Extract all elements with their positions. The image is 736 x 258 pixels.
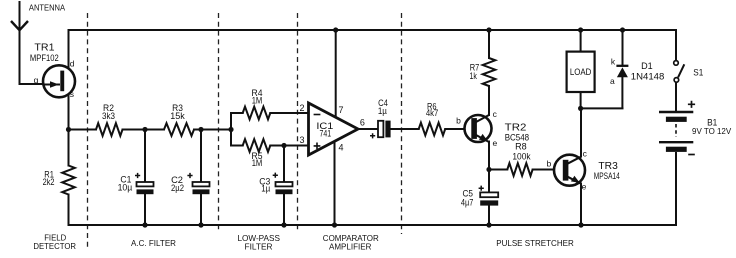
svg-text:e: e <box>582 182 587 192</box>
svg-text:100k: 100k <box>512 151 531 161</box>
svg-text:a: a <box>610 76 615 86</box>
svg-text:c: c <box>583 148 588 158</box>
svg-text:1µ: 1µ <box>378 106 387 116</box>
svg-text:15k: 15k <box>170 111 185 121</box>
svg-text:A.C. FILTER: A.C. FILTER <box>131 239 176 248</box>
svg-text:TR1: TR1 <box>34 43 54 54</box>
svg-text:b: b <box>456 116 461 126</box>
svg-text:4k7: 4k7 <box>426 108 439 118</box>
svg-text:1k: 1k <box>470 71 478 81</box>
svg-text:9V TO 12V: 9V TO 12V <box>692 127 732 136</box>
svg-text:1µ: 1µ <box>261 184 270 194</box>
svg-text:2k2: 2k2 <box>43 177 55 187</box>
svg-text:3: 3 <box>299 135 304 145</box>
svg-text:LOAD: LOAD <box>570 67 591 77</box>
svg-text:s: s <box>70 89 74 99</box>
svg-text:S1: S1 <box>693 67 703 77</box>
svg-text:FIELD: FIELD <box>44 234 66 243</box>
svg-text:MPF102: MPF102 <box>30 53 59 63</box>
svg-text:1M: 1M <box>252 96 263 106</box>
svg-text:1M: 1M <box>252 158 263 168</box>
svg-text:2: 2 <box>299 103 304 113</box>
svg-text:10µ: 10µ <box>118 183 133 193</box>
svg-text:2µ2: 2µ2 <box>171 183 184 193</box>
svg-text:g: g <box>34 75 39 85</box>
svg-text:DETECTOR: DETECTOR <box>33 242 76 251</box>
svg-text:6: 6 <box>360 118 365 128</box>
svg-text:741: 741 <box>320 129 332 139</box>
svg-text:4: 4 <box>338 143 343 153</box>
svg-text:d: d <box>70 58 75 68</box>
svg-text:MPSA14: MPSA14 <box>594 171 620 181</box>
svg-text:e: e <box>493 138 498 148</box>
svg-text:c: c <box>493 109 498 119</box>
svg-text:PULSE STRETCHER: PULSE STRETCHER <box>496 239 574 248</box>
svg-text:4µ7: 4µ7 <box>461 198 474 208</box>
svg-text:FILTER: FILTER <box>245 242 273 251</box>
svg-text:B1: B1 <box>707 118 717 128</box>
svg-text:D1: D1 <box>641 61 653 71</box>
svg-text:7: 7 <box>338 105 343 115</box>
svg-text:AMPLIFIER: AMPLIFIER <box>329 243 371 252</box>
svg-text:ANTENNA: ANTENNA <box>29 3 66 13</box>
svg-text:R8: R8 <box>515 142 527 152</box>
svg-text:1N4148: 1N4148 <box>631 72 665 82</box>
svg-text:b: b <box>547 158 552 168</box>
svg-text:3k3: 3k3 <box>102 111 115 121</box>
